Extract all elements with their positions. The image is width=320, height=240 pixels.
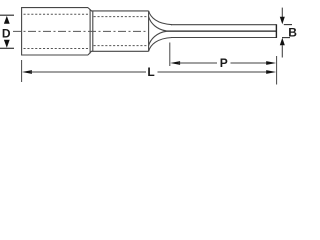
- svg-text:L: L: [147, 65, 154, 79]
- dimension L left extension line: [21, 60, 23, 82]
- dimension L right extension line: [276, 56, 278, 85]
- pin seam line: [167, 30, 277, 32]
- wire barrel bottom edge: [91, 50, 149, 52]
- dimension P line right segment: [231, 62, 269, 64]
- taper upper cone line: [149, 17, 167, 31]
- dimension B top stem: [281, 8, 283, 17]
- dimension P right arrow: [266, 61, 276, 65]
- pin top edge: [171, 24, 276, 26]
- dimension B bottom stem: [281, 45, 283, 57]
- dimension L left arrow: [22, 70, 32, 74]
- dimension P left extension line: [169, 43, 171, 67]
- insulation barrel inner dashed line top: [24, 13, 90, 15]
- wire barrel inner dashed line top: [94, 16, 148, 18]
- pin end edge: [275, 24, 277, 38]
- dimension D bottom tick: [0, 47, 14, 49]
- pin bottom edge: [171, 37, 276, 39]
- dimension L line right segment: [158, 71, 269, 73]
- taper lower cone line: [149, 31, 167, 45]
- wire barrel right edge: [148, 11, 150, 51]
- dimension B top tick: [284, 24, 292, 26]
- taper lower outer curve: [149, 38, 172, 52]
- insulation barrel right edge: [89, 9, 91, 53]
- insulation barrel outline: [22, 8, 88, 55]
- centerline: [13, 30, 148, 32]
- taper upper outer curve: [149, 11, 172, 25]
- dimension B down arrow: [280, 17, 285, 25]
- wire barrel left edge: [92, 11, 94, 51]
- dimension P line left segment: [178, 62, 217, 64]
- wire barrel top edge: [91, 10, 149, 12]
- dimension B bottom tick: [282, 37, 290, 39]
- dimension D down arrow: [4, 40, 10, 48]
- insulation barrel bottom chamfer: [88, 51, 91, 55]
- wire barrel inner dashed line bottom: [94, 45, 148, 47]
- dimension B up arrow: [280, 38, 285, 46]
- svg-text:D: D: [2, 27, 11, 41]
- dimension L right arrow: [266, 70, 276, 74]
- dimension P left arrow: [170, 61, 180, 65]
- svg-text:P: P: [220, 56, 228, 70]
- dimension D top tick: [0, 14, 14, 16]
- insulation barrel inner dashed line bottom: [24, 48, 90, 50]
- dimension L line left segment: [30, 71, 146, 73]
- insulation barrel top chamfer: [88, 8, 91, 11]
- dimension D up arrow: [4, 16, 10, 24]
